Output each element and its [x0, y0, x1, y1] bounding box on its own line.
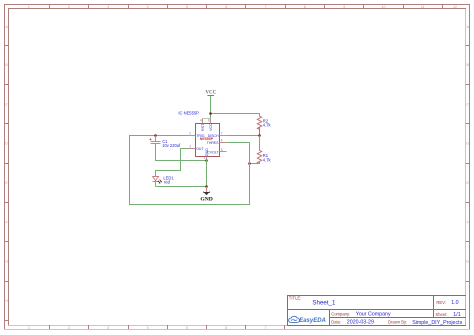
svg-text:Your Company: Your Company [356, 312, 391, 318]
svg-text:G: G [466, 260, 469, 264]
svg-text:1.0: 1.0 [451, 300, 458, 306]
label C1 value [162, 139, 181, 148]
svg-text:1: 1 [28, 326, 30, 330]
wire feedback loop to TRIG [130, 136, 250, 205]
pin 3 OUT [189, 145, 205, 151]
svg-text:Sheet_1: Sheet_1 [312, 299, 336, 306]
svg-text:4: 4 [147, 5, 149, 9]
svg-text:C: C [5, 102, 8, 106]
title block border [288, 296, 466, 326]
svg-text:C: C [466, 102, 469, 106]
svg-text:4.7k: 4.7k [263, 157, 272, 162]
svg-text:D: D [466, 142, 469, 146]
svg-text:Date:: Date: [331, 320, 341, 325]
wire VCC to R2 [211, 114, 260, 117]
svg-text:VCC: VCC [209, 123, 213, 131]
svg-text:7: 7 [221, 132, 223, 136]
svg-text:6: 6 [225, 326, 227, 330]
svg-text:5: 5 [186, 5, 188, 9]
svg-text:H: H [5, 299, 8, 303]
svg-text:2: 2 [68, 326, 70, 330]
label R2 value [263, 119, 272, 128]
wire LED to GND [156, 186, 207, 188]
svg-text:3: 3 [189, 145, 191, 149]
pin 2 TRIG [189, 132, 205, 138]
capacitor C1 [149, 136, 160, 149]
wire R2 bottom to DISCH [227, 135, 260, 137]
junction C1 top node [154, 134, 157, 137]
wire THRES link [227, 143, 250, 164]
svg-text:REV:: REV: [436, 300, 446, 305]
junction THRES node [248, 162, 251, 165]
resistor R1 [257, 150, 261, 164]
svg-text:8: 8 [304, 5, 306, 9]
title block field labels [289, 296, 448, 325]
svg-text:4: 4 [200, 119, 202, 123]
frame tick marks top [50, 5, 443, 9]
wire OUT to LED [156, 149, 189, 175]
op-amp U1 : IC NE555P timer body [196, 124, 220, 157]
svg-text:Drawn By:: Drawn By: [388, 320, 407, 325]
svg-text:red: red [164, 180, 171, 185]
pin 7 DISCH [208, 132, 227, 138]
svg-text:2: 2 [189, 132, 191, 136]
frame tick marks left [5, 46, 9, 321]
pin 5 CVOLT [207, 148, 226, 155]
svg-text:4.7k: 4.7k [263, 123, 272, 128]
ground flag GND [200, 187, 212, 203]
wire C1 bottom to GND pin [156, 147, 207, 161]
svg-text:Simple_DIY_Projects: Simple_DIY_Projects [412, 320, 462, 326]
svg-text:5: 5 [221, 148, 223, 152]
svg-text:2020-03-29: 2020-03-29 [347, 320, 374, 326]
svg-text:D: D [5, 142, 8, 146]
svg-text:Sheet:: Sheet: [435, 312, 447, 317]
svg-text:10v 220uf: 10v 220uf [162, 143, 181, 148]
svg-text:DISCH: DISCH [208, 134, 219, 138]
label LED1 value [163, 175, 174, 184]
junction GND pin node [205, 159, 208, 162]
wire R1 bottom to THRES junction [250, 162, 260, 164]
svg-text:8: 8 [208, 119, 210, 123]
svg-text:GND: GND [205, 148, 209, 156]
resistor R2 [257, 116, 261, 136]
svg-text:5: 5 [186, 326, 188, 330]
frame tick marks bottom [50, 326, 285, 330]
svg-text:6: 6 [225, 5, 227, 9]
pin 8 VCC [208, 119, 213, 131]
pin 1 GND [204, 148, 210, 161]
svg-text:G: G [5, 260, 8, 264]
junction R2/DISCH node [258, 134, 261, 137]
junction VCC node [209, 112, 212, 115]
EasyEDA logo [289, 316, 326, 324]
wire VCC stem [210, 96, 212, 124]
svg-text:1/1: 1/1 [453, 312, 460, 318]
svg-text:1: 1 [28, 5, 30, 9]
svg-text:GND: GND [200, 196, 212, 202]
svg-text:Company:: Company: [331, 311, 350, 316]
svg-text:9: 9 [343, 5, 345, 9]
svg-text:3: 3 [107, 326, 109, 330]
svg-text:7: 7 [265, 5, 267, 9]
svg-text:6: 6 [221, 139, 223, 143]
wire GND pin down [206, 161, 208, 187]
label R1 value [263, 153, 272, 162]
svg-text:VCC: VCC [205, 91, 216, 96]
frame tick marks right [466, 46, 470, 282]
wire R2 to R1 [259, 136, 261, 151]
LED LED1 [153, 171, 163, 187]
svg-text:IC NE555P: IC NE555P [178, 111, 199, 116]
power flag VCC [205, 91, 216, 96]
svg-text:10: 10 [382, 5, 386, 9]
title block values [312, 299, 462, 326]
pin 4 RST [200, 119, 205, 131]
pin 6 THRES [207, 139, 227, 145]
svg-text:7: 7 [265, 326, 267, 330]
svg-text:RST: RST [201, 123, 205, 131]
svg-text:EasyEDA: EasyEDA [299, 318, 326, 324]
svg-text:4: 4 [147, 326, 149, 330]
junction GND node [205, 185, 208, 188]
svg-text:2: 2 [68, 5, 70, 9]
wire RST tie to VCC [203, 118, 211, 120]
svg-text:OUT: OUT [196, 147, 204, 151]
svg-text:12: 12 [453, 5, 457, 9]
svg-text:3: 3 [107, 5, 109, 9]
svg-text:11: 11 [421, 5, 425, 9]
svg-text:TITLE:: TITLE: [289, 296, 302, 301]
svg-text:TRIG: TRIG [196, 134, 205, 138]
svg-text:THRES: THRES [207, 141, 220, 145]
